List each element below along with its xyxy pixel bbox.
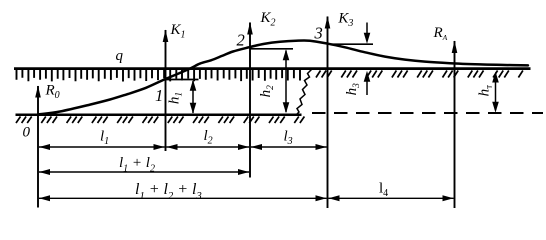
svg-text:K1: K1 [170, 22, 186, 41]
arrowheads h2 [283, 49, 290, 60]
reference line K2 [249, 23, 251, 178]
svg-text:K3: K3 [337, 11, 353, 30]
svg-text:l3: l3 [284, 129, 293, 148]
ground hatch left [16, 117, 304, 124]
svg-text:q: q [116, 48, 124, 64]
reference line RA [454, 41, 456, 208]
svg-text:RA: RA [433, 25, 448, 42]
arrowheads l1+l2 [39, 169, 50, 175]
svg-text:h2: h2 [258, 85, 276, 98]
tick level point 2 [250, 48, 293, 50]
svg-text:l2: l2 [204, 128, 213, 147]
arrowhead K1 [163, 30, 169, 43]
arrowhead K2 [247, 22, 253, 35]
arrowhead RA [452, 41, 458, 54]
reference line 0 [37, 86, 39, 208]
settlement curve [38, 40, 528, 114]
h2 extent arrow line [285, 51, 287, 113]
arrowheads ht [492, 72, 499, 83]
dim line l3 [251, 146, 327, 148]
svg-text:l1: l1 [100, 128, 109, 147]
dim line l2 [167, 146, 250, 148]
arrowheads h1 [190, 80, 197, 91]
svg-text:3: 3 [314, 24, 323, 43]
svg-text:l4: l4 [379, 181, 388, 200]
arrowheads l1+l2+l3 [39, 195, 50, 201]
arrowheads h3 [364, 33, 371, 44]
comb ticks under load line q [17, 70, 301, 82]
reference line K1 [165, 30, 167, 151]
tick level point 3 [328, 43, 374, 45]
dim line l1+l2+l3 [39, 197, 327, 199]
arrowhead R0 [35, 86, 41, 98]
svg-text:h1: h1 [167, 92, 185, 104]
arrowheads l1 [39, 144, 50, 150]
dashed datum line [312, 112, 543, 114]
reference line K3 [327, 17, 329, 209]
dim line l1 [39, 146, 165, 148]
svg-text:2: 2 [237, 31, 245, 50]
h1 extent arrow line [192, 81, 194, 113]
wavy break line [297, 70, 312, 115]
ht extent arrow line [495, 74, 497, 110]
dim line l1+l2 [39, 171, 249, 173]
svg-text:1: 1 [155, 86, 163, 105]
h3 lower pointer line [366, 80, 368, 95]
svg-text:0: 0 [23, 125, 31, 141]
load line q (top surface line) [14, 67, 531, 70]
arrowheads l3 [251, 144, 262, 150]
svg-text:h3: h3 [344, 83, 362, 96]
arrowheads l4 [329, 195, 340, 201]
h3 upper pointer line [366, 23, 368, 34]
ground surface line left [16, 114, 302, 117]
svg-text:hт: hт [477, 85, 494, 97]
dim line l4 [329, 197, 454, 199]
arrowhead K3 [325, 16, 331, 29]
tick level point 1 [166, 79, 199, 81]
arrowheads l2 [167, 144, 178, 150]
svg-text:R0: R0 [45, 83, 60, 102]
ground hatch right of break [316, 71, 523, 78]
svg-text:K2: K2 [260, 10, 276, 29]
